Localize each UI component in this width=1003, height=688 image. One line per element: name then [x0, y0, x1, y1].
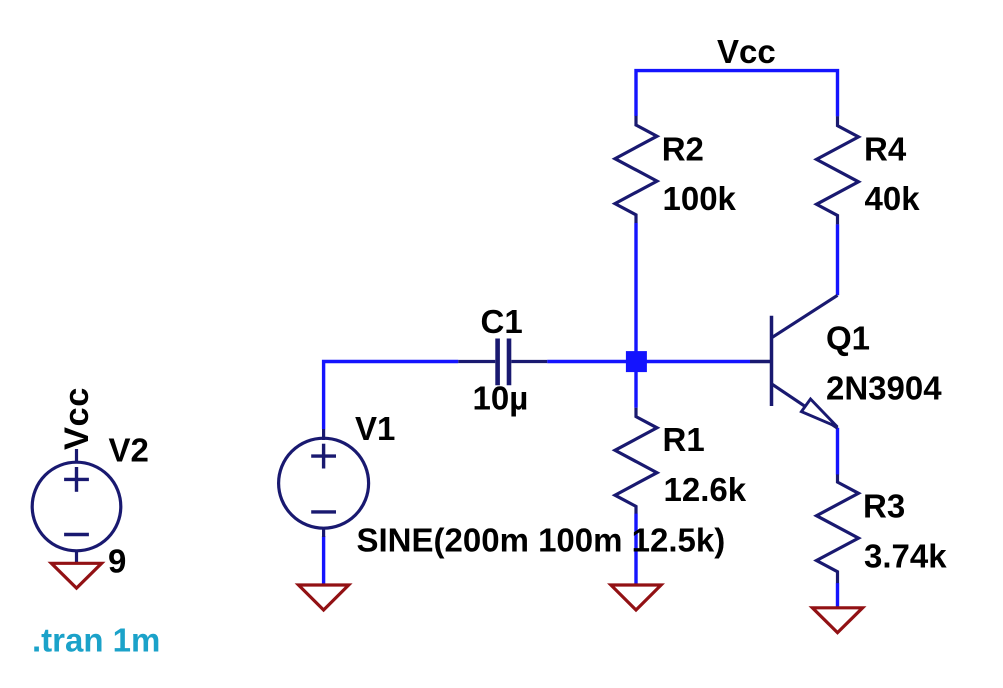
svg-text:R3: R3: [863, 487, 905, 524]
svg-text:Vcc: Vcc: [58, 387, 96, 450]
wire: R2 bottom to junction: [634, 223, 637, 362]
wire: junction to R1 top: [634, 362, 637, 408]
transistor Q1: [750, 295, 838, 428]
svg-text:SINE(200m 100m 12.5k): SINE(200m 100m 12.5k): [357, 522, 726, 559]
svg-text:Vcc: Vcc: [717, 33, 776, 70]
wire: R1 bottom to ground: [634, 514, 637, 586]
svg-text:V2: V2: [109, 432, 149, 469]
wire: V1 bottom to ground: [322, 536, 325, 585]
svg-text:R1: R1: [663, 421, 705, 458]
svg-text:10µ: 10µ: [473, 380, 529, 417]
wire: Vcc top rail with drops to R2 and R4: [636, 71, 838, 117]
svg-text:40k: 40k: [865, 180, 921, 217]
svg-text:R4: R4: [864, 130, 907, 167]
svg-text:V1: V1: [355, 410, 395, 447]
svg-text:2N3904: 2N3904: [826, 370, 942, 407]
ground at R1: [611, 585, 661, 610]
svg-text:R2: R2: [662, 130, 704, 167]
wire: V1 top vertical and across to C1: [324, 362, 459, 430]
wire: R3 bottom to ground: [836, 583, 839, 608]
wire: junction to Q1 base: [636, 360, 750, 363]
svg-text:Q1: Q1: [826, 320, 870, 357]
wire: emitter corner to R3 top: [836, 428, 839, 475]
svg-text:100k: 100k: [663, 180, 737, 217]
ground at V1: [299, 585, 349, 610]
svg-text:12.6k: 12.6k: [664, 471, 747, 508]
voltage source V1: [279, 429, 369, 537]
svg-text:9: 9: [108, 543, 126, 580]
svg-text:C1: C1: [481, 303, 523, 340]
wire: R4 bottom to collector corner: [836, 224, 839, 295]
resistor R3: [817, 474, 859, 583]
voltage source V2: [32, 449, 121, 563]
node junction square: [626, 351, 647, 372]
resistor R1: [615, 408, 657, 514]
resistor R4: [817, 116, 859, 224]
capacitor C1: [458, 339, 547, 386]
svg-text:3.74k: 3.74k: [864, 537, 947, 574]
wire: C1 right to junction: [547, 360, 636, 363]
resistor R2: [615, 116, 657, 223]
svg-text:.tran 1m: .tran 1m: [32, 622, 160, 659]
ground at V2: [51, 563, 101, 588]
ground at R3: [812, 608, 862, 633]
